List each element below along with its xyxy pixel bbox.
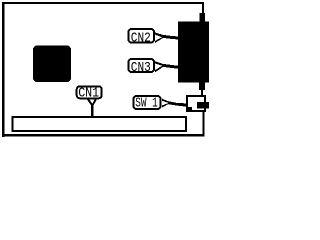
svg-text:SW 1: SW 1 [135, 96, 158, 111]
label CN1 pointer [87, 99, 97, 117]
connector block top tab [200, 13, 206, 22]
edge connector slot CN1 [13, 117, 187, 131]
svg-text:CN3: CN3 [131, 61, 151, 76]
switch SW1 body [187, 96, 205, 111]
label SW1 pointer notch [162, 101, 169, 106]
wire from block to SW1 [201, 90, 203, 96]
connector block bottom tab [199, 83, 205, 91]
label CN1 box [77, 86, 102, 98]
card outline right border bottom segment [203, 111, 205, 136]
card outline bottom border [2, 134, 205, 137]
switch SW1 corner pad [188, 107, 192, 112]
label SW1 box [134, 96, 161, 109]
label CN3 box [129, 59, 155, 72]
card outline left border [2, 2, 5, 137]
label CN2 box [129, 29, 155, 43]
connector block CN2/CN3 body [178, 22, 209, 83]
label SW1 pointer [162, 99, 187, 108]
label CN2 pointer [155, 33, 179, 44]
chip U1 [33, 46, 71, 83]
label CN1 pointer notch [89, 99, 94, 104]
label CN3 pointer notch [155, 63, 162, 70]
card outline top border [2, 2, 203, 4]
card outline right border top segment [202, 2, 204, 14]
label CN2 pointer notch [155, 35, 162, 41]
label CN3 pointer [155, 61, 179, 72]
svg-text:CN2: CN2 [131, 31, 151, 46]
switch SW1 black lever [197, 102, 209, 109]
